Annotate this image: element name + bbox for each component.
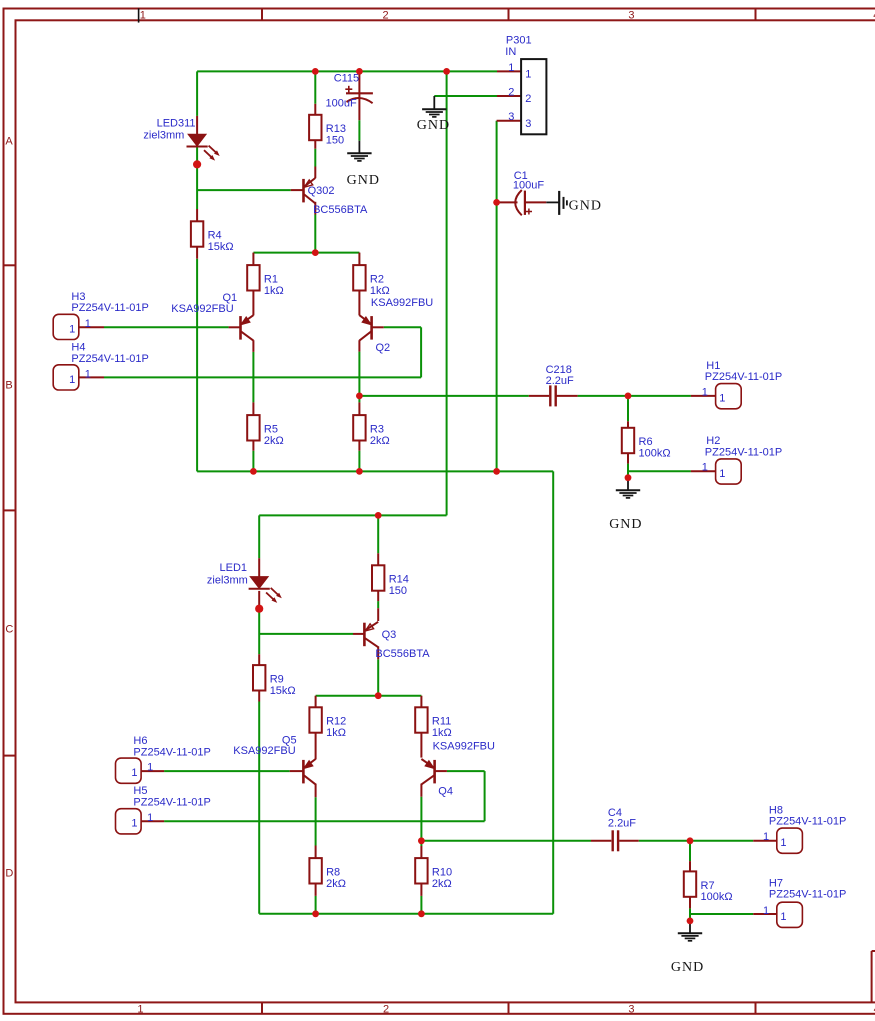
wire top rail VCC [197,70,497,72]
svg-text:KSA992FBU: KSA992FBU [371,297,433,309]
resistor R8 [309,858,346,890]
wire R14 top [377,515,379,553]
svg-text:1: 1 [147,762,153,774]
svg-text:PZ254V-11-01P: PZ254V-11-01P [705,446,782,458]
svg-text:R1: R1 [264,273,278,285]
pin R7 top [689,861,691,871]
svg-text:1kΩ: 1kΩ [432,727,452,739]
junction at 378.2,515.4 [375,512,382,519]
pin R8 top [315,846,317,859]
svg-text:1: 1 [508,62,514,74]
pin Q302 emitter [314,167,316,179]
pin Q3 collector [377,646,379,659]
svg-text:1: 1 [525,68,531,80]
svg-text:A: A [5,136,13,148]
wire Q1 collector to R5 [252,352,254,403]
svg-text:R14: R14 [389,574,409,586]
svg-text:PZ254V-11-01P: PZ254V-11-01P [71,302,148,314]
pin R6 bottom [627,453,629,464]
svg-text:LED1: LED1 [220,562,248,574]
pin H5 pin [141,820,164,822]
svg-text:3: 3 [628,1004,634,1016]
svg-text:100kΩ: 100kΩ [639,448,671,460]
transistor Q2 [359,297,433,354]
pin R9 bottom [258,690,260,701]
pin R10 bottom [420,883,422,896]
svg-text:P301: P301 [506,34,532,46]
pin R3 top [358,402,360,415]
svg-text:GND: GND [671,960,704,975]
svg-text:1: 1 [131,767,137,779]
pin Q5 base pin [290,770,304,772]
pin R7 bottom [689,897,691,909]
svg-text:150: 150 [389,585,407,597]
svg-text:R13: R13 [326,123,346,135]
pin R4 top [196,209,198,222]
resistor R11 [415,707,452,739]
wire Q302 base [197,189,291,191]
resistor R6 [622,428,671,460]
wire LED311 anode [196,71,198,116]
svg-text:2: 2 [383,10,389,22]
connector H2 [702,435,782,484]
pin P301 pin3 [497,120,521,122]
svg-text:PZ254V-11-01P: PZ254V-11-01P [769,889,846,901]
svg-text:1: 1 [69,323,75,335]
resistor R14 [372,565,409,597]
svg-text:R10: R10 [432,867,452,879]
pin H2 pin [691,470,716,472]
pin R5 bottom [252,440,254,450]
svg-text:KSA992FBU: KSA992FBU [433,740,495,752]
wire output to C218 [359,395,528,397]
svg-text:15kΩ: 15kΩ [270,685,296,697]
svg-text:H7: H7 [769,878,783,890]
svg-text:H1: H1 [706,360,720,372]
pin Q2 collector pin [358,340,360,351]
wire LED1 anode [258,515,260,558]
svg-text:2: 2 [383,1004,389,1016]
wire R13 top [314,71,316,103]
svg-text:2kΩ: 2kΩ [370,435,390,447]
svg-text:R6: R6 [639,436,653,448]
svg-text:2.2uF: 2.2uF [546,375,574,387]
wire Q3 base [259,633,353,635]
svg-text:ziel3mm: ziel3mm [207,574,248,586]
junction at 259.2,608.7 [255,605,263,613]
wire output to C4 [421,840,591,842]
junction at 315.6,913.8 [312,910,319,917]
pin R10 top [420,846,422,858]
junction at 421.4,913.8 [418,910,425,917]
junction at 690,920.9 [687,918,694,925]
svg-text:PZ254V-11-01P: PZ254V-11-01P [769,816,846,828]
pin H3 pin [79,326,104,328]
wire bottom rail top-section [197,470,553,472]
pin C4 right [619,840,639,842]
wire R7 bottom to gnd [689,908,691,921]
pin H1 pin [691,395,716,397]
svg-text:H5: H5 [133,785,147,797]
svg-text:H2: H2 [706,435,720,447]
svg-text:R9: R9 [270,674,284,686]
ground GND-P301 [417,96,450,133]
pin R13 top [314,104,316,115]
svg-text:2kΩ: 2kΩ [264,435,284,447]
junction at 197.1,164.4 [193,160,201,168]
svg-text:C: C [5,623,13,635]
svg-text:1: 1 [702,386,708,398]
wire right long vertical [552,471,554,913]
svg-text:R4: R4 [208,230,222,242]
svg-text:100uF: 100uF [326,98,357,110]
svg-text:1: 1 [137,1004,143,1016]
wire R7 top [689,841,691,861]
connector H4 [53,342,149,390]
svg-text:1: 1 [763,905,769,917]
pin P301 pin1 [497,70,521,72]
resistor R2 [353,265,390,297]
wire Q4 base to corner [447,770,485,772]
svg-text:1: 1 [719,393,725,405]
wire H2 [628,470,691,472]
svg-text:1: 1 [719,468,725,480]
svg-text:C115: C115 [334,72,359,84]
wire mid rail R1 R2 [253,252,359,254]
connector H6 [116,735,211,783]
junction at 315.3,71.4 [312,68,319,75]
junction at 359.4,471.4 [356,468,363,475]
junction at 421.4,840.8 [418,837,425,844]
wire R4 down to bottom rail [196,259,198,472]
svg-text:H6: H6 [133,735,147,747]
svg-text:H4: H4 [71,342,85,354]
svg-text:R5: R5 [264,424,278,436]
wire LED311 cathode to R4 [196,146,198,209]
junction at 359.4,71.4 [356,68,363,75]
svg-text:3: 3 [525,118,531,130]
junction at 253.4,471.4 [250,468,257,475]
resistor R13 [309,115,346,147]
pin LED1 top [258,558,260,576]
wire lower top rail [259,514,446,516]
pin R11 bottom to Q4 [420,733,422,758]
svg-text:B: B [5,379,12,391]
svg-text:Q302: Q302 [308,185,335,197]
svg-text:3: 3 [508,111,514,123]
svg-text:IN: IN [505,46,516,58]
svg-text:1: 1 [763,831,769,843]
pin Q1 base pin [229,326,241,328]
svg-text:KSA992FBU: KSA992FBU [171,303,233,315]
wire H7 [690,913,753,915]
wire Q4 collector to R10 [420,797,422,846]
svg-text:2: 2 [508,87,514,99]
ground GND-C115 [347,141,380,188]
pin R14 bottom [377,590,379,601]
pin Q2 base pin [372,326,384,328]
wire R3 to rail [358,451,360,472]
pin Q4 collector [420,784,422,797]
svg-text:2: 2 [525,93,531,105]
wire Q4 base drop [484,771,486,821]
connector H3 [53,291,149,340]
transistor Q1 [171,292,253,340]
resistor R12 [309,707,346,739]
junction at 628,395.9 [625,393,632,400]
wire H5 long [164,820,485,822]
pin Q302 collector [314,202,316,215]
wire R13 to Q302 emitter [314,149,316,167]
wire H6 to Q5 base [164,770,290,772]
svg-text:GND: GND [417,118,450,133]
pin Q4 base pin [435,770,447,772]
svg-text:1: 1 [131,818,137,830]
resistor R4 [191,221,234,253]
wire Q2 base drop [420,327,422,377]
svg-text:R12: R12 [326,716,346,728]
svg-text:KSA992FBU: KSA992FBU [233,745,295,757]
wire R9 down to bottom rail [258,702,260,914]
transistor Q5 [233,734,315,784]
pin H7 pin [753,913,777,915]
resistor R1 [247,265,284,297]
svg-text:R8: R8 [326,867,340,879]
pin R13 bottom [314,140,316,149]
svg-text:1: 1 [140,10,146,22]
resistor R3 [353,415,390,447]
ground for C1 signal style [546,191,602,215]
svg-text:1kΩ: 1kΩ [264,285,284,297]
transistor Q4 [421,740,495,797]
svg-text:Q4: Q4 [438,786,453,798]
connector H1 [702,360,782,409]
pin R12 bottom to Q5 [315,733,317,760]
pin R11 top [420,696,422,708]
pin Q3 emitter [377,608,379,621]
junction at 628,477.7 [625,474,632,481]
wire Q2 base to corner [384,326,421,328]
pin C115 lead [358,71,360,120]
wire pin3 vertical [496,121,498,472]
svg-text:1kΩ: 1kΩ [370,285,390,297]
svg-text:1: 1 [780,837,786,849]
capacitor C218 [546,364,574,407]
pin H4 pin [79,376,104,378]
pin R9 top [258,654,260,665]
svg-text:H8: H8 [769,805,783,817]
svg-text:PZ254V-11-01P: PZ254V-11-01P [133,796,210,808]
svg-text:1: 1 [85,318,91,330]
pin R8 bottom [315,883,317,896]
pin Q1 collector pin [252,340,254,352]
wire C115 to gnd [358,120,360,141]
svg-text:1: 1 [85,368,91,380]
pin LED1 bottom [258,591,260,608]
wire LED1 cathode to R9 [258,608,260,654]
resistor R7 [684,871,733,903]
junction at 690,840.8 [687,837,694,844]
wire pin2 to gnd [434,95,497,97]
wire R14 to Q3 emitter [377,601,379,608]
resistor R5 [247,415,284,447]
svg-text:R7: R7 [701,880,715,892]
pin C218 right [557,395,578,397]
transistor Q3 [364,622,430,660]
wire R8 to rail [315,896,317,914]
svg-text:R3: R3 [370,424,384,436]
svg-text:100kΩ: 100kΩ [701,891,733,903]
pin C1 right [526,201,546,203]
svg-text:BC556BTA: BC556BTA [375,648,430,660]
svg-text:15kΩ: 15kΩ [208,241,234,253]
svg-text:2kΩ: 2kΩ [326,878,346,890]
wire C218 to H1 [578,395,691,397]
svg-text:LED311: LED311 [157,117,196,129]
svg-text:PZ254V-11-01P: PZ254V-11-01P [133,746,210,758]
pin C1 left [497,201,518,203]
LED LED1 [207,562,282,603]
connector P301 [505,34,546,134]
svg-text:PZ254V-11-01P: PZ254V-11-01P [705,371,782,383]
cursor mark [138,8,140,22]
pin LED311 top [196,116,198,134]
pin Q3 base pin [353,633,364,635]
junction at 378.2,695.7 [375,692,382,699]
svg-text:2.2uF: 2.2uF [608,818,636,830]
svg-text:1: 1 [780,911,786,923]
svg-text:Q2: Q2 [376,342,391,354]
pin R2 bottom to Q2 emitter [358,290,360,315]
pin P301 pin2 [497,95,521,97]
pin R12 top [315,696,317,708]
wire R10 to rail [420,896,422,914]
wire H3 to Q1 base [104,326,229,328]
svg-text:D: D [5,867,13,879]
junction at 496.6,202.4 [493,199,500,206]
pin R5 top [252,402,254,415]
svg-text:Q3: Q3 [382,629,397,641]
resistor R10 [415,858,452,890]
svg-text:R11: R11 [432,716,451,728]
pin R3 bottom [358,440,360,450]
resistor R9 [253,665,296,697]
pin R1 top [252,253,254,266]
svg-text:GND: GND [347,173,380,188]
svg-text:3: 3 [628,10,634,22]
svg-text:1: 1 [702,462,708,474]
wire Q2 collector to R3 [358,352,360,403]
junction at 359.4,395.9 [356,393,363,400]
svg-text:100uF: 100uF [513,180,544,192]
svg-text:GND: GND [569,199,602,214]
wire R5 to rail [252,451,254,472]
svg-text:PZ254V-11-01P: PZ254V-11-01P [71,353,148,365]
pin H6 pin [141,770,164,772]
pin R1 bottom to Q1 emitter [252,290,254,315]
capacitor C4 [608,807,636,851]
junction at 446.6,71.4 [443,68,450,75]
wire long vertical from pin1 junction [446,71,448,515]
pin C218 left [529,395,549,397]
connector H7 [763,878,846,928]
pin R14 top [377,553,379,565]
connector H8 [763,805,846,854]
pin C4 left [591,840,611,842]
wire Q302 collector to rail [314,215,316,253]
ground GND-R6 [609,478,642,532]
svg-text:GND: GND [609,517,642,532]
junction at 315.3,252.6 [312,249,319,256]
wire Q5 collector to R8 [315,797,317,845]
svg-text:C218: C218 [546,364,572,376]
svg-text:1kΩ: 1kΩ [326,727,346,739]
LED LED311 [143,117,219,160]
svg-text:H3: H3 [71,291,85,303]
transistor Q302 [304,178,368,216]
svg-text:1: 1 [147,812,153,824]
wire H4 long [104,376,421,378]
pin R4 bottom [196,246,198,258]
pin Q302 base [291,189,304,191]
svg-text:BC556BTA: BC556BTA [313,204,368,216]
capacitor C115 [326,72,373,109]
junction at 496.6,471.4 [493,468,500,475]
svg-text:150: 150 [326,135,344,147]
connector H5 [116,785,211,834]
wire lower mid rail [316,695,422,697]
wire C4 to H8 [639,840,754,842]
pin R2 top [358,253,360,266]
pin Q5 collector [315,784,317,798]
svg-text:1: 1 [69,374,75,386]
pin [196,146,198,147]
svg-text:ziel3mm: ziel3mm [143,129,184,141]
wire R6 bottom to gnd [627,464,629,478]
pin H8 pin [753,840,777,842]
svg-text:2kΩ: 2kΩ [432,878,452,890]
capacitor C1 [513,170,544,215]
svg-text:R2: R2 [370,273,384,285]
wire Q3 collector to rail [377,659,379,695]
pin R6 top [627,421,629,428]
wire R6 top [627,396,629,421]
wire lower bottom rail [259,913,553,915]
ground GND-R7 [671,921,704,975]
